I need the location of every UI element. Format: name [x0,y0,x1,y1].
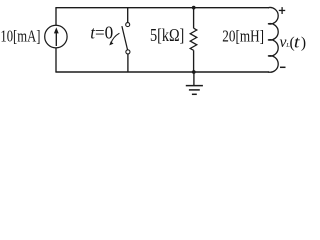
svg-text:10[mA]: 10[mA] [0,26,40,45]
svg-text:5[kΩ]: 5[kΩ] [150,25,184,45]
node junction top [192,6,196,10]
ground bar 2 [189,89,200,91]
wire source top lead [55,8,57,26]
svg-text:): ) [301,35,306,52]
wire resistor top lead [193,8,195,29]
svg-text:20[mH]: 20[mH] [222,26,264,45]
current source arrow [55,32,57,46]
inductor L1 coil [268,7,278,72]
current source I1 circle [45,25,67,48]
ground bar 1 [186,85,203,87]
svg-text:t=0: t=0 [90,22,113,42]
switch SW1 top contact [126,23,130,27]
minus sign [280,66,286,68]
wire top rail [55,7,269,9]
resistor R1 zigzag [190,28,197,50]
wire switch bottom lead [127,54,129,72]
switch SW1 blade [122,26,128,49]
plus sign [279,9,285,11]
svg-text:t: t [294,33,300,52]
node junction bottom [192,70,196,74]
switch SW1 bottom contact [126,50,130,54]
wire bottom rail [55,71,269,73]
wire resistor bottom lead [193,50,195,72]
ground stem [193,72,195,85]
ground bar 3 [192,93,197,95]
switch motion arc [111,33,120,43]
wire source bottom lead [55,48,57,72]
wire switch top lead [127,8,129,23]
